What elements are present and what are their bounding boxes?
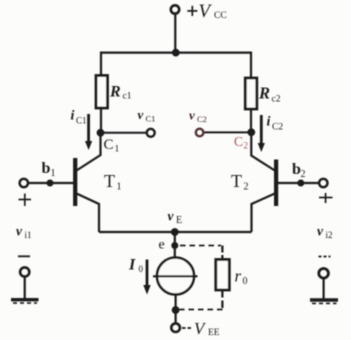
svg-text:2: 2 — [301, 169, 306, 180]
svg-text:1: 1 — [115, 145, 120, 155]
svg-text:v: v — [168, 209, 175, 224]
wire Rc1 to C1 — [100, 108, 102, 134]
resistor Rc1 — [96, 76, 108, 109]
label minus left — [18, 255, 30, 257]
label b2 — [292, 161, 306, 180]
label C2 — [234, 134, 248, 151]
label T2 — [231, 171, 249, 193]
label b1 — [42, 160, 56, 179]
svg-text:C1: C1 — [146, 114, 156, 124]
wire emitter T2 — [252, 194, 275, 233]
svg-text:CC: CC — [214, 11, 227, 21]
wire to ground right — [323, 278, 325, 300]
wire collector T2 — [251, 135, 274, 171]
wire top rail — [100, 51, 252, 53]
label C1 — [104, 137, 120, 155]
label I0 — [128, 257, 144, 275]
node b1 — [47, 180, 54, 187]
current arrow I0 — [143, 260, 150, 295]
wire bottom rail — [99, 231, 252, 233]
wire r0 top lead — [221, 246, 223, 261]
wire to VEE terminal — [175, 313, 177, 324]
label T1 — [104, 171, 122, 193]
svg-text:C: C — [104, 137, 114, 153]
svg-text:v: v — [138, 107, 144, 122]
wire rail to Rc2 — [250, 52, 252, 78]
transistor T2 — [274, 160, 278, 207]
svg-text:0: 0 — [243, 276, 248, 287]
label iC1 — [71, 109, 87, 126]
svg-text:I: I — [128, 257, 136, 274]
terminal vC1 — [147, 129, 155, 137]
svg-text:c2: c2 — [272, 95, 281, 105]
svg-text:R: R — [109, 84, 121, 101]
label vC2 — [189, 108, 207, 125]
terminal +VCC — [171, 5, 179, 13]
node C1 — [97, 129, 105, 137]
ground left — [11, 300, 39, 303]
wire VCC vertical — [174, 14, 176, 53]
svg-text:v: v — [16, 224, 23, 239]
label Rc2 — [258, 84, 281, 105]
wire C1 to vC1 terminal — [103, 132, 147, 134]
label iC2 — [267, 115, 284, 133]
svg-text:c1: c1 — [123, 92, 132, 102]
node e — [171, 242, 178, 249]
terminal vC2 — [196, 129, 204, 137]
wire source to VEE node — [175, 295, 177, 315]
node b2 — [297, 180, 304, 187]
node vE — [171, 228, 179, 236]
transistor T1 — [73, 158, 77, 206]
svg-text:i: i — [71, 109, 75, 124]
label vi1 — [16, 224, 32, 241]
terminal input right — [319, 179, 327, 187]
label minus right — [319, 256, 331, 258]
svg-text:i2: i2 — [326, 230, 333, 240]
svg-text:1: 1 — [117, 182, 122, 193]
svg-text:C1: C1 — [76, 116, 87, 126]
svg-text:EE: EE — [208, 328, 220, 338]
svg-text:E: E — [176, 215, 182, 226]
svg-text:b: b — [42, 160, 51, 177]
current source I0 — [153, 258, 198, 295]
svg-text:C2: C2 — [197, 114, 207, 124]
svg-text:T: T — [104, 171, 115, 191]
label vC1 — [138, 107, 156, 124]
label plus right — [319, 193, 333, 203]
wire Rc2 to C2 — [250, 109, 252, 134]
svg-text:V: V — [194, 319, 207, 338]
wire base T2 — [278, 182, 319, 184]
label r0 — [235, 267, 248, 288]
wire C2 to vC2 terminal — [204, 131, 249, 133]
terminal ground left — [20, 267, 29, 276]
wire collector T1 — [77, 135, 101, 171]
node VEE — [172, 306, 180, 314]
svg-text:v: v — [189, 108, 195, 123]
wire to ground left — [24, 277, 26, 300]
svg-text:R: R — [258, 84, 270, 103]
label -VEE — [194, 319, 220, 338]
terminal ground right — [319, 269, 329, 279]
junction VCC rail — [172, 49, 180, 57]
node C2 — [247, 128, 255, 136]
label vE — [168, 209, 183, 227]
wire dashed r0 bottom to VEE node — [180, 309, 223, 311]
svg-text:0: 0 — [139, 264, 144, 274]
svg-text:T: T — [231, 171, 242, 191]
svg-text:i: i — [267, 115, 271, 130]
svg-text:C2: C2 — [272, 123, 283, 133]
resistor Rc2 — [245, 78, 256, 109]
svg-text:1: 1 — [51, 168, 56, 179]
minus sign VEE — [182, 327, 191, 329]
svg-text:i1: i1 — [25, 230, 32, 240]
wire r0 bottom lead — [221, 290, 223, 310]
terminal input left — [20, 179, 28, 187]
svg-text:2: 2 — [244, 141, 249, 151]
label +VCC — [187, 6, 197, 16]
current arrow iC2 — [258, 115, 265, 152]
label plus left — [19, 194, 32, 207]
wire vE to current source — [174, 232, 176, 258]
ground right — [310, 300, 338, 303]
resistor r0 — [216, 260, 230, 291]
svg-text:e: e — [159, 238, 165, 253]
wire base T1 — [28, 182, 74, 184]
svg-text:v: v — [317, 224, 324, 239]
label vi2 — [317, 224, 333, 241]
wire emitter T1 — [77, 194, 100, 233]
wire rail to Rc1 — [100, 52, 102, 76]
label e — [159, 238, 165, 253]
terminal -VEE — [171, 323, 180, 332]
wire dashed e to r0 top — [180, 245, 221, 247]
svg-text:V: V — [199, 1, 213, 22]
svg-text:C: C — [234, 134, 243, 149]
current arrow iC1 — [85, 114, 92, 150]
svg-text:r: r — [235, 267, 242, 286]
svg-text:2: 2 — [244, 182, 249, 193]
label Rc1 — [109, 84, 132, 102]
